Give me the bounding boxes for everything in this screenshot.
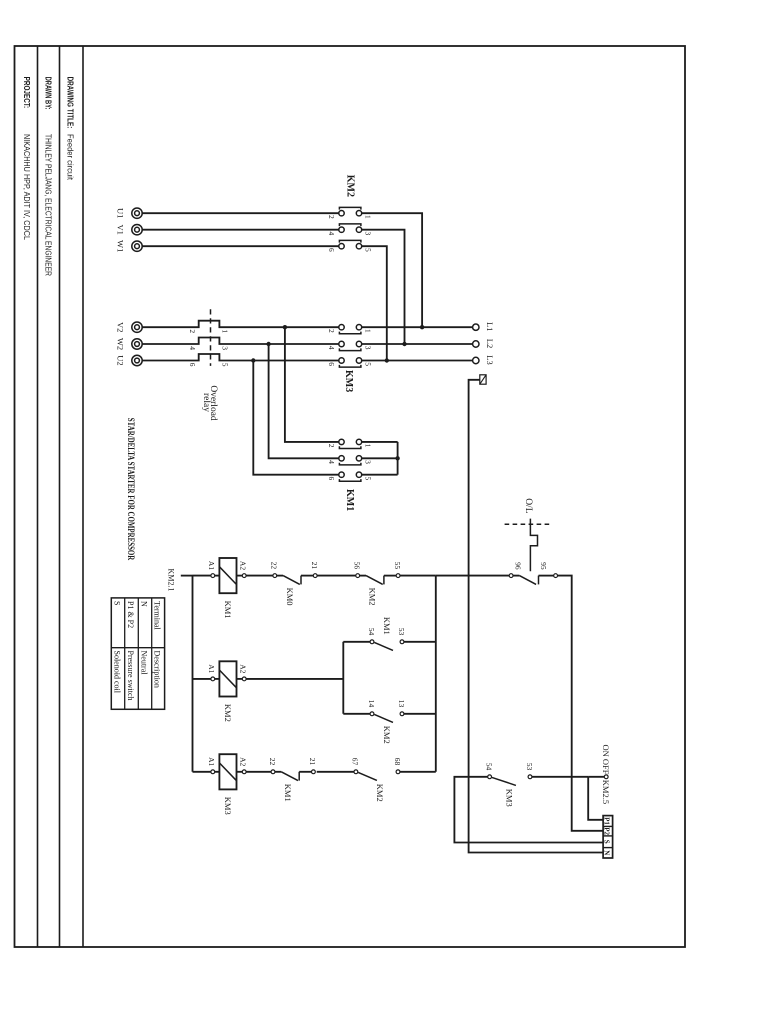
svg-text:1: 1	[364, 215, 373, 219]
wire branch join horizontal	[342, 642, 344, 714]
svg-text:DRAWN BY:: DRAWN BY:	[43, 77, 52, 110]
svg-text:L2: L2	[485, 339, 495, 348]
svg-text:THINLEY PELJANG, ELECTRICAL EN: THINLEY PELJANG, ELECTRICAL ENGINEER	[43, 134, 52, 276]
supply terminal L1	[473, 324, 479, 330]
contactor KM1 pole 1 pin numbers 2/1	[327, 444, 373, 448]
wire 54 down to branch join	[343, 641, 370, 643]
wire star bar to KM1 contact	[362, 457, 398, 459]
wire KM2 to motor terminal U1	[142, 212, 339, 214]
svg-text:22: 22	[268, 758, 277, 766]
svg-text:A1: A1	[207, 664, 216, 673]
svg-text:A2: A2	[239, 757, 248, 766]
svg-text:Pressure switch: Pressure switch	[126, 651, 135, 701]
svg-text:1: 1	[221, 329, 230, 333]
svg-text:P2: P2	[603, 827, 611, 835]
svg-text:DRAWING TITLE:: DRAWING TITLE:	[65, 77, 74, 129]
svg-text:3: 3	[364, 232, 373, 236]
svg-text:PROJECT:: PROJECT:	[22, 77, 31, 109]
svg-text:P1 & P2: P1 & P2	[126, 601, 135, 628]
contactor KM2 pole 2 pin numbers 4/3	[327, 232, 373, 236]
svg-text:14: 14	[367, 700, 376, 708]
NC contact KM0 pins 21/22	[273, 574, 317, 585]
wire down to contact 53	[532, 776, 588, 778]
svg-text:68: 68	[393, 758, 402, 766]
svg-text:KM2.5: KM2.5	[601, 780, 611, 804]
svg-text:relay: relay	[201, 393, 211, 412]
contactor KM2 pole 3 contact	[339, 240, 362, 249]
wire 56 to 21	[317, 575, 356, 577]
svg-text:A1: A1	[207, 757, 216, 766]
terminal strip P1 P2 S N	[603, 816, 613, 858]
svg-text:6: 6	[327, 477, 336, 481]
overload OL trip linkage	[530, 519, 537, 572]
junction node L2/KM1 tee	[266, 342, 270, 346]
junction node L2/KM2 feed	[402, 342, 406, 346]
control bottom bus	[192, 576, 194, 772]
contactor KM1 pole 1 contact	[339, 439, 362, 448]
svg-text:S: S	[112, 601, 121, 605]
svg-text:V1: V1	[116, 225, 126, 235]
svg-text:KM0: KM0	[285, 588, 295, 606]
svg-text:1: 1	[364, 444, 373, 448]
svg-text:KM3: KM3	[223, 797, 233, 815]
contactor KM2 pole 2 contact	[339, 224, 362, 233]
overload relay trip dashed line	[210, 309, 212, 366]
wire 22 to coil KM3 A2	[246, 771, 271, 773]
svg-text:V2: V2	[116, 322, 126, 332]
svg-text:KM1: KM1	[344, 489, 355, 511]
wire 22 to coil KM1 A2	[246, 575, 273, 577]
wire KM2 pole 1 feed from L1	[362, 213, 422, 327]
svg-text:U2: U2	[116, 355, 126, 365]
wire stub KM2.1	[181, 575, 193, 577]
wire tee to pressure switch P1	[588, 777, 603, 820]
svg-text:53: 53	[525, 763, 534, 771]
svg-text:Neutral: Neutral	[139, 651, 148, 676]
svg-text:21: 21	[310, 562, 319, 570]
contactor KM2 pole 3 pin numbers 6/5	[327, 248, 373, 252]
svg-text:ON OFF: ON OFF	[601, 745, 611, 775]
title block middle line 1	[59, 46, 61, 947]
NC contact KM2 pins 55/56	[356, 574, 400, 585]
junction node star point	[395, 456, 399, 460]
wire L1 vertical to KM3	[362, 326, 473, 328]
svg-text:6: 6	[327, 248, 336, 252]
svg-text:5: 5	[364, 477, 373, 481]
wire 67 to 21	[317, 771, 354, 773]
svg-text:A2: A2	[239, 664, 248, 673]
svg-text:5: 5	[364, 248, 373, 252]
wire 95 to pressure switch P2	[558, 576, 604, 831]
contactor KM1 pole 2 contact	[339, 456, 362, 465]
drawing border frame	[15, 46, 686, 947]
wire 96 down to control bus	[436, 575, 509, 577]
contactor KM3 pole 1 contact	[339, 325, 362, 334]
svg-text:21: 21	[308, 758, 317, 766]
coil KM1	[211, 558, 246, 593]
legend table	[111, 598, 164, 709]
svg-text:KM1: KM1	[223, 601, 233, 619]
svg-text:3: 3	[364, 460, 373, 464]
svg-text:4: 4	[188, 346, 197, 350]
wire bus to contact 55	[400, 575, 436, 577]
NO contact KM1 pins 53/54	[370, 640, 404, 651]
wire bus to contact 13	[404, 713, 436, 715]
svg-text:KM3: KM3	[505, 789, 515, 807]
svg-text:54: 54	[367, 628, 376, 636]
contactor KM1 pole 3 pin numbers 6/5	[327, 477, 373, 481]
svg-text:Description: Description	[153, 651, 162, 688]
svg-text:S: S	[603, 840, 611, 844]
contactor KM3 pole 1 pin numbers 2/1	[327, 329, 373, 333]
svg-text:22: 22	[270, 562, 279, 570]
wire KM2 pole 2 feed from L2	[362, 230, 405, 344]
svg-text:L3: L3	[485, 355, 495, 364]
junction node L3/KM2 feed	[385, 358, 389, 362]
coil KM2	[211, 661, 246, 696]
supply terminal L3	[473, 357, 479, 363]
wire coil KM3 A1 to bottom bus	[193, 771, 211, 773]
wire coil KM2 A1 to bottom bus	[193, 678, 211, 680]
svg-text:N: N	[139, 601, 148, 607]
svg-text:4: 4	[327, 232, 336, 236]
coil KM3	[211, 754, 246, 789]
motor terminal V1	[132, 225, 142, 235]
wire bus to contact 68	[400, 771, 436, 773]
svg-text:4: 4	[327, 346, 336, 350]
svg-text:2: 2	[327, 215, 336, 219]
wire bus to contact 53	[404, 641, 436, 643]
svg-text:Feeder circuit: Feeder circuit	[65, 134, 74, 181]
control top bus	[435, 576, 437, 772]
title block top line	[82, 46, 84, 947]
wire ON/OFF terminal down	[588, 776, 604, 778]
wire fuse to terminal N	[469, 380, 603, 853]
svg-text:1: 1	[364, 329, 373, 333]
NC contact KM1 pins 21/22	[271, 770, 315, 781]
motor terminal U2	[132, 355, 142, 365]
svg-text:5: 5	[221, 363, 230, 367]
svg-text:67: 67	[351, 758, 360, 766]
svg-text:KM2: KM2	[368, 588, 378, 606]
contactor KM3 pole 2 contact	[339, 341, 362, 350]
wire KM2 to motor terminal V1	[142, 229, 339, 231]
svg-text:STAR/DELTA STARTER FOR COMPRES: STAR/DELTA STARTER FOR COMPRESSOR	[126, 418, 136, 561]
junction node L1/KM2 feed	[420, 325, 424, 329]
wire KM1 pole 3 to star-delta tee	[253, 361, 339, 475]
svg-text:2: 2	[188, 329, 197, 333]
svg-text:54: 54	[484, 763, 493, 771]
svg-text:U1: U1	[116, 208, 126, 218]
svg-text:Terminal: Terminal	[153, 601, 162, 631]
overload OL dashed line	[502, 523, 549, 525]
NO contact KM3 pins 53/54	[488, 775, 532, 786]
NO contact KM2 pins 68/67	[354, 770, 400, 781]
title block middle line 2	[37, 46, 39, 947]
motor terminal W2	[132, 339, 142, 349]
supply terminal L2	[473, 341, 479, 347]
svg-text:5: 5	[364, 362, 373, 366]
junction node L1/KM1 tee	[283, 325, 287, 329]
svg-text:KM2.1: KM2.1	[167, 569, 176, 592]
svg-text:6: 6	[188, 363, 197, 367]
svg-text:A1: A1	[207, 561, 216, 570]
fuse F1 (control tap)	[480, 375, 486, 384]
terminal ON/OFF KM2.5	[604, 775, 608, 779]
svg-text:56: 56	[353, 562, 362, 570]
contactor KM1 pole 3 contact	[339, 472, 362, 481]
contactor KM1 pole 2 pin numbers 4/3	[327, 460, 373, 464]
wire star bar to KM1 contact	[362, 441, 398, 443]
svg-text:Solenoid coil: Solenoid coil	[112, 651, 121, 694]
svg-text:KM2: KM2	[382, 726, 392, 744]
wire star bar to KM1 contact	[362, 474, 398, 476]
wire 54 down to solenoid terminal S	[454, 777, 603, 843]
svg-text:KM1: KM1	[382, 617, 392, 635]
NO contact KM2 pins 13/14	[370, 712, 404, 723]
contactor KM2 pole 1 contact	[339, 207, 362, 216]
svg-text:KM1: KM1	[283, 784, 293, 802]
svg-text:KM2: KM2	[223, 704, 233, 722]
svg-text:W2: W2	[116, 338, 126, 350]
wire 14 down to branch join	[343, 713, 370, 715]
contactor KM3 pole 2 pin numbers 4/3	[327, 346, 373, 350]
wire KM2 pole 3 feed from L3	[362, 246, 387, 360]
wire KM3 pole 2 down through overload to W2	[142, 338, 339, 345]
wire KM3 pole 3 down through overload to U2	[142, 354, 339, 361]
svg-text:2: 2	[327, 329, 336, 333]
junction node L3/KM1 tee	[251, 358, 255, 362]
svg-text:95: 95	[539, 562, 548, 570]
svg-text:KM3: KM3	[343, 370, 354, 392]
svg-text:N: N	[603, 850, 611, 855]
svg-text:96: 96	[514, 562, 523, 570]
svg-text:KM2: KM2	[375, 784, 385, 802]
wire branch join to coil KM2 A2	[246, 678, 343, 680]
svg-text:55: 55	[393, 562, 402, 570]
svg-text:4: 4	[327, 460, 336, 464]
motor terminal U1	[132, 208, 142, 218]
svg-text:P1: P1	[603, 817, 611, 825]
wire L2 vertical to KM3	[362, 343, 473, 345]
wire KM1 pole 1 to star-delta tee	[285, 327, 339, 442]
svg-text:L1: L1	[485, 322, 495, 331]
svg-text:6: 6	[327, 362, 336, 366]
svg-text:A2: A2	[239, 561, 248, 570]
wire KM3 pole 1 down through overload to V2	[142, 321, 339, 328]
NC contact OL pins 95/96	[509, 574, 557, 585]
svg-text:13: 13	[397, 700, 406, 708]
motor terminal V2	[132, 322, 142, 332]
svg-text:53: 53	[397, 628, 406, 636]
wire KM2 to motor terminal W1	[142, 245, 339, 247]
svg-text:3: 3	[221, 346, 230, 350]
contactor KM3 pole 3 contact	[339, 358, 362, 367]
wire KM1 pole 2 to star-delta tee	[269, 344, 339, 458]
contactor KM2 pole 1 pin numbers 2/1	[327, 215, 373, 219]
svg-text:KM2: KM2	[345, 175, 356, 197]
svg-text:O/L: O/L	[523, 498, 533, 514]
svg-text:NIKACHHU HPP, ADIT IV, CDCL: NIKACHHU HPP, ADIT IV, CDCL	[22, 134, 31, 240]
motor terminal W1	[132, 241, 142, 251]
svg-text:W1: W1	[116, 240, 126, 252]
wire L3 vertical to KM3	[362, 360, 473, 362]
wire coil KM1 A1 to bottom bus	[193, 575, 211, 577]
contactor KM3 pole 3 pin numbers 6/5	[327, 362, 373, 366]
wire KM1 star bridge	[397, 442, 399, 475]
svg-text:3: 3	[364, 346, 373, 350]
svg-text:2: 2	[327, 444, 336, 448]
